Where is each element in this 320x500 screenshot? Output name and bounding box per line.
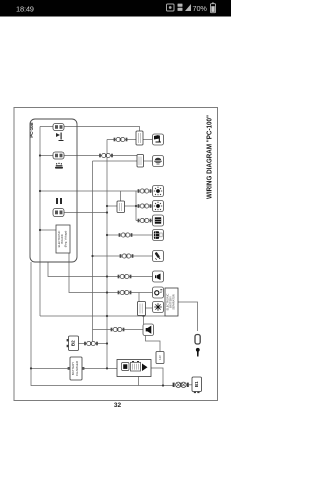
wire from connector J2 to inline connector R2 top — [40, 155, 140, 156]
connector pair row1 — [114, 137, 128, 141]
icon ignition — [56, 133, 64, 142]
svg-text:32: 32 — [114, 402, 122, 409]
node busx40/row3 — [39, 190, 41, 192]
wire separator to fuse F1 — [178, 302, 198, 331]
wire row5 — [136, 220, 153, 222]
svg-text:12V: 12V — [158, 355, 162, 360]
svg-text:WIRING DIAGRAM "PC-100": WIRING DIAGRAM "PC-100" — [206, 115, 213, 199]
wire battery B2 out — [79, 343, 108, 345]
icon burner — [55, 163, 63, 169]
connector J3 in unit — [53, 209, 64, 217]
load icon vent grid — [153, 215, 164, 226]
wire board stub — [40, 229, 56, 231]
wire battery unit to B1 drop — [151, 368, 163, 386]
battery separator box — [165, 288, 178, 316]
connector pair row3 — [138, 189, 152, 193]
svg-text:BOARD: BOARD — [60, 234, 64, 243]
wire row3 — [40, 190, 153, 192]
wire speaker box to aux battery — [146, 336, 161, 352]
connector pair row7 — [120, 254, 134, 258]
node busx40/J2 stub — [39, 154, 41, 156]
wire bus x92.5 — [92, 161, 94, 344]
connector pair row4 — [138, 204, 152, 208]
wire bus x40 — [39, 127, 41, 317]
node busx107/row9 — [106, 291, 108, 293]
wire left bus x31 and bottom run — [31, 262, 173, 386]
node bottom run/B1 drop — [162, 384, 164, 386]
inline connector R1 — [136, 131, 143, 145]
wire row8 — [48, 262, 153, 277]
status bar — [0, 0, 231, 17]
load icon grill — [153, 156, 164, 167]
battery B2 — [67, 336, 79, 351]
wire socket S1 to snowflake load — [146, 307, 153, 309]
wire charger right to battery unit — [82, 367, 117, 369]
connector pair row2 — [99, 153, 113, 157]
svg-text:SEPARATOR: SEPARATOR — [171, 294, 175, 310]
svg-text:(Reg. Voltage): (Reg. Voltage) — [64, 231, 68, 248]
junction dots — [30, 154, 164, 386]
node busx107/row6 — [106, 234, 108, 236]
connector J1 in unit — [53, 124, 64, 131]
connector pair row9 — [118, 290, 132, 294]
connector J2 in unit — [53, 152, 64, 159]
node bus136/row4 — [135, 205, 137, 207]
battery unit box — [117, 360, 151, 377]
electronic board box — [56, 225, 70, 253]
wire bus x136 rows3-5 — [135, 191, 137, 221]
wire from connector J1 to inline connector R1 top — [40, 127, 140, 132]
node busx107/charger wire — [106, 367, 108, 369]
load icon matrix — [153, 230, 164, 241]
wire row2 chain — [93, 160, 153, 162]
wire y316 run — [40, 315, 165, 317]
node busx107/row4 — [106, 205, 108, 207]
node busx107/row8 — [106, 275, 108, 277]
node busx92.5/row7 — [91, 255, 93, 257]
fuse F1 — [195, 335, 200, 345]
load icon snowflake — [153, 302, 164, 313]
connector pair row6 — [119, 233, 133, 237]
page frame — [14, 108, 218, 401]
load icon horn — [153, 271, 164, 282]
wire row9 — [69, 253, 153, 293]
icon plugs — [56, 198, 62, 204]
svg-text:B2: B2 — [71, 340, 76, 346]
node busx31/charger wire — [30, 367, 32, 369]
battery B1 — [192, 377, 202, 393]
wire charger left — [31, 367, 70, 369]
connector pair row5 — [138, 218, 152, 222]
wire battery unit bottom drop — [138, 377, 140, 386]
battery unit small icon — [122, 363, 130, 371]
wire row7 — [93, 255, 153, 257]
load icon iron — [153, 134, 164, 145]
node busx40/board stub — [39, 229, 41, 231]
load icon speaker — [143, 324, 154, 336]
node busx107/B2 wire — [106, 342, 108, 344]
connector pair row8 — [118, 274, 132, 278]
top feed into speaker box — [143, 316, 145, 324]
svg-text:70%: 70% — [193, 4, 208, 13]
node busx107/J3 wire — [106, 211, 108, 213]
battery symbol — [131, 361, 141, 371]
volte icon — [178, 4, 183, 11]
connector pair B2 — [84, 341, 98, 345]
wire row1 chain — [107, 139, 153, 141]
battery icon — [211, 3, 216, 13]
wire B1 connector to battery B1 — [189, 384, 192, 386]
screenshot icon — [167, 4, 175, 11]
wire connector J3 out — [64, 212, 107, 214]
svg-text:CHARGER: CHARGER — [75, 360, 79, 376]
lamp L1 — [153, 186, 164, 197]
relay K1 riser — [120, 191, 122, 201]
socket S1 — [138, 302, 146, 316]
load icon plug — [153, 251, 164, 262]
relay K1 — [117, 201, 125, 213]
connector pair row10 — [111, 327, 125, 331]
battery charger — [68, 357, 85, 380]
wire row4 — [107, 205, 153, 207]
node y316/speaker drop — [142, 315, 144, 317]
wire row10 — [93, 329, 144, 331]
inline connector R2 — [137, 155, 144, 168]
wire bus x107 — [106, 140, 108, 369]
svg-text:B1: B1 — [194, 381, 199, 387]
connector pair B1 — [173, 382, 189, 387]
arrow — [142, 364, 148, 372]
terminal pin — [196, 348, 200, 357]
svg-text:PC-10B: PC-10B — [29, 122, 34, 137]
svg-text:18:49: 18:49 — [16, 4, 34, 13]
lamp L2 — [153, 201, 164, 212]
node busx107/y316 — [106, 315, 108, 317]
load icon pump — [153, 287, 164, 298]
wire row6 — [107, 234, 153, 236]
aux battery 12V box — [156, 352, 164, 364]
control unit PC-10B box — [30, 119, 77, 262]
signal icon — [185, 4, 191, 11]
wire drop to socket S1 — [138, 293, 140, 302]
